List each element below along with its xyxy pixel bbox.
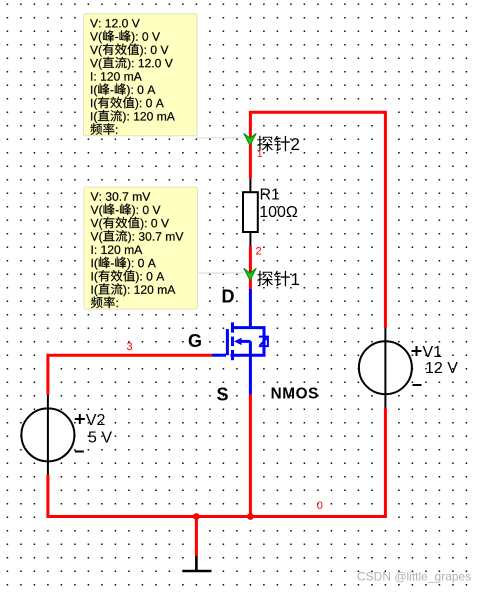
leader line from info box to probe 探针1 <box>198 272 245 274</box>
wire net 0: ground stub <box>195 517 198 557</box>
Q1 body diode <box>259 337 269 347</box>
svg-text:1: 1 <box>257 148 263 160</box>
svg-text:V2: V2 <box>86 412 106 429</box>
svg-text:100Ω: 100Ω <box>259 204 298 221</box>
svg-text:V1: V1 <box>423 344 443 361</box>
probe 探针1 label <box>257 271 299 287</box>
svg-text:5 V: 5 V <box>88 430 112 447</box>
Q1 gate arrow <box>234 338 242 345</box>
svg-text:0: 0 <box>317 500 323 512</box>
probe 探针2 arrow marker <box>244 133 256 145</box>
svg-text:2: 2 <box>256 246 262 258</box>
probe 探针2 label <box>257 136 299 152</box>
svg-text:S: S <box>217 385 229 405</box>
wire net 0: NMOS source down to bottom rail <box>249 394 252 517</box>
wire net 2: R1 bottom to NMOS drain <box>249 246 252 289</box>
svg-text:R1: R1 <box>260 187 281 204</box>
svg-text:NMOS: NMOS <box>271 386 319 403</box>
svg-text:D: D <box>222 287 235 307</box>
svg-text:CSDN @little_grapes: CSDN @little_grapes <box>357 570 471 584</box>
probe 探针1 arrow marker <box>244 268 256 280</box>
source V2 <box>21 395 84 475</box>
wire net 1: R1 top to V1 + terminal <box>250 112 385 328</box>
junction at ground stub <box>193 513 200 520</box>
svg-text:G: G <box>188 331 202 351</box>
transistor Q1 NMOS symbol <box>212 289 264 394</box>
resistor R1 <box>243 179 258 247</box>
wire net 3: V2 + terminal to NMOS gate <box>48 355 212 395</box>
probe info box for 探针1 (V/I measurements) <box>84 187 198 309</box>
source V1 <box>359 328 422 408</box>
svg-text:3: 3 <box>127 341 133 353</box>
svg-text:12 V: 12 V <box>425 360 458 377</box>
leader line from info box to probe 探针2 <box>197 137 244 139</box>
junction at source/bottom rail <box>247 513 254 520</box>
probe info box for 探针2 (V/I measurements) <box>84 14 198 136</box>
ground <box>183 556 212 571</box>
wire net 0: bottom rail V2- to V1- <box>48 408 386 517</box>
